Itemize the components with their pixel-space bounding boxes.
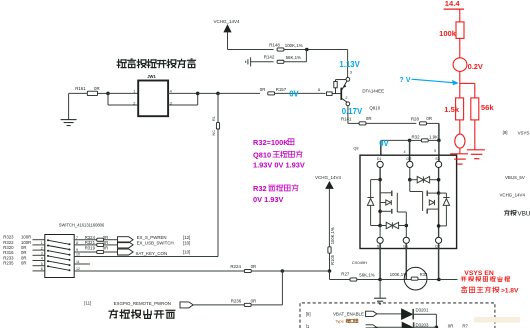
dashed box [300, 303, 495, 328]
resistor R28 [420, 122, 427, 125]
wire emitter feed [347, 50, 349, 78]
red node branch [460, 82, 475, 84]
title 静态拨杆开机方案 [117, 59, 195, 68]
node S1 ground [378, 278, 382, 282]
node R148 right [305, 48, 309, 52]
resistor R141 [348, 122, 359, 124]
body diode right [439, 192, 447, 194]
red ground left [450, 153, 468, 155]
wire S1 down [379, 243, 381, 279]
mosfet M1 left [380, 192, 391, 194]
svg-text:Q810: Q810 [253, 150, 271, 159]
svg-text:VSYS EN: VSYS EN [464, 270, 494, 277]
svg-text:D3201: D3201 [416, 308, 429, 313]
svg-text:R141: R141 [341, 116, 352, 121]
wire down to R236 [281, 271, 283, 305]
svg-text:3: 3 [41, 252, 43, 256]
svg-text:100K,1%: 100K,1% [390, 272, 407, 277]
switch left wire 2 [33, 244, 45, 246]
svg-text:R161: R161 [75, 86, 86, 91]
switch left wire 4 [33, 254, 45, 256]
resistor R157 [268, 92, 275, 95]
switch left wire 5 [33, 260, 45, 262]
pin G2 [407, 161, 413, 167]
port VBAT_ENABLE [366, 311, 377, 316]
svg-text:6: 6 [41, 267, 43, 271]
wire G1 down [405, 243, 407, 279]
svg-text:0R: 0R [94, 86, 100, 91]
resistor R161 [69, 92, 87, 94]
svg-text:NC: NC [212, 130, 216, 136]
wire D1 internal [379, 168, 381, 226]
svg-text:100k: 100k [439, 29, 457, 38]
svg-text:VCHG_14V4: VCHG_14V4 [213, 19, 240, 24]
svg-text:SWITCH_416131160806: SWITCH_416131160806 [59, 223, 105, 228]
ground rotated left [250, 57, 252, 66]
ground [379, 280, 381, 299]
red ground right [467, 149, 485, 151]
svg-text:4: 4 [404, 150, 406, 154]
svg-text:EX_S_PWREN: EX_S_PWREN [137, 235, 167, 240]
mosfet array U-Q8 box [360, 155, 457, 248]
port EX_S_PWREN [118, 237, 134, 243]
svg-text:CX049H: CX049H [352, 260, 367, 265]
wire G2 riser [409, 140, 411, 161]
wire D2 down [438, 243, 440, 279]
transistor Q810 DTA144EE [327, 77, 350, 105]
svg-text:R319: R319 [85, 245, 96, 250]
svg-text:EXGPIO_REMOTE_PWRON: EXGPIO_REMOTE_PWRON [114, 301, 171, 306]
node R224 [281, 269, 285, 273]
wire row12 to R224 [74, 270, 244, 272]
label 支持VBUS [504, 210, 516, 215]
gate M1 [396, 193, 398, 212]
svg-text:3: 3 [350, 70, 352, 74]
node R105 bottom [328, 269, 332, 273]
svg-text:[10]: [10] [183, 249, 190, 254]
svg-text:5: 5 [434, 149, 436, 153]
svg-text:DTA144EE: DTA144EE [362, 88, 384, 93]
svg-text:[9]: [9] [306, 311, 311, 316]
svg-text:1: 1 [133, 90, 135, 94]
wire S2 riser [438, 140, 440, 161]
switch left wire 1 [33, 239, 45, 241]
switch left wire 6 [33, 265, 45, 267]
svg-text:R157: R157 [276, 87, 287, 92]
svg-text:56K,1%: 56K,1% [359, 272, 374, 277]
svg-text:D3203: D3203 [416, 322, 429, 327]
wire S1 [379, 226, 381, 238]
switch JW1 [138, 81, 168, 117]
mosfet M2 right [426, 191, 428, 197]
svg-text:R1: R1 [212, 116, 216, 121]
wire [108, 92, 138, 94]
faint watermark [474, 317, 520, 323]
body diode left [371, 179, 381, 181]
switch left wire 3 [33, 249, 45, 251]
svg-text:1: 1 [41, 241, 43, 245]
svg-text:56K,1%: 56K,1% [286, 55, 301, 60]
red resistor 56k [471, 98, 479, 120]
wire row11 stub [74, 263, 90, 265]
resistor R319 [74, 251, 97, 253]
svg-text:Q810: Q810 [369, 106, 380, 111]
svg-text:0R: 0R [251, 264, 257, 269]
wire JW1 right [168, 92, 198, 94]
svg-text:R32=100K: R32=100K [253, 138, 289, 147]
ground [68, 93, 70, 119]
svg-text:Type: Type [335, 319, 344, 324]
svg-text:? V: ? V [399, 75, 410, 84]
svg-text:4: 4 [41, 257, 43, 261]
resistor R33 with circle [380, 279, 411, 281]
svg-text:[9]: [9] [503, 130, 508, 135]
svg-text:R32: R32 [253, 184, 267, 193]
svg-text:R224: R224 [230, 264, 241, 269]
wire collector down [347, 106, 349, 124]
svg-text:SAT_KEY_CON: SAT_KEY_CON [136, 251, 168, 256]
svg-text:[1: [1 [306, 324, 310, 328]
svg-text:0R: 0R [260, 87, 266, 92]
magenta note block [253, 138, 289, 147]
svg-text:Q8: Q8 [353, 146, 358, 150]
resistor R105 vertical [328, 247, 331, 253]
svg-text:R27: R27 [341, 272, 350, 277]
svg-text:VBUS_5V: VBUS_5V [505, 175, 525, 180]
red source circle 0.2V [453, 58, 467, 72]
red note line3 高电平有效 [462, 287, 499, 293]
resistor R321 [74, 244, 97, 246]
pin D2 [436, 237, 442, 243]
svg-text:0V 1.93V: 0V 1.93V [253, 195, 283, 204]
switch left wire 7 [33, 270, 45, 272]
wire D1 riser [380, 140, 382, 155]
wire to switch row10 [74, 256, 218, 258]
svg-text:VBUS: VBUS [517, 210, 530, 217]
resistor R32 [410, 139, 422, 141]
svg-text:G2: G2 [406, 157, 411, 161]
port EX_USB_SWITCH [118, 242, 134, 248]
svg-text:0R: 0R [103, 245, 109, 250]
svg-text:[10]: [10] [183, 240, 190, 245]
svg-text:VBAT_ENABLE: VBAT_ENABLE [333, 312, 364, 317]
svg-text:2: 2 [133, 101, 135, 105]
svg-text:R33: R33 [420, 272, 428, 277]
red wire + source circle 2 [459, 120, 461, 134]
node B [216, 92, 220, 96]
svg-text:EX_USB_SWITCH: EX_USB_SWITCH [137, 241, 174, 246]
svg-text:1.13V: 1.13V [339, 60, 360, 69]
pin S2 [436, 161, 442, 167]
wire S2 internal [438, 168, 440, 194]
node R32 right [437, 139, 441, 143]
resistor R324 [74, 239, 97, 241]
svg-text:R142: R142 [264, 54, 275, 59]
svg-text:S2: S2 [435, 157, 440, 161]
resistor R27 [330, 279, 351, 281]
wire G2 internal [409, 168, 411, 180]
node D2 bottom [437, 278, 441, 282]
title 远程控制开关 [109, 310, 175, 319]
svg-text:VSYS: VSYS [518, 130, 530, 135]
resistor R224 [244, 269, 251, 272]
zener pair bottom [378, 224, 382, 228]
red note line2 开机使用输出端 [461, 277, 510, 282]
wire [438, 123, 440, 140]
red resistor 100k [456, 22, 464, 39]
resistor R148 [277, 48, 284, 51]
svg-text:R28: R28 [411, 116, 420, 121]
wire rail [228, 49, 274, 51]
svg-text:2: 2 [345, 96, 347, 100]
svg-text:0R: 0R [21, 261, 27, 266]
diode D3201 [377, 313, 402, 315]
red wire 56k down [474, 120, 476, 150]
wire D2 internal [438, 193, 440, 237]
svg-text:0R: 0R [426, 116, 432, 121]
svg-text:G1: G1 [403, 245, 408, 249]
svg-text:14.4: 14.4 [445, 0, 461, 8]
svg-text:>1.8V: >1.8V [501, 288, 519, 295]
svg-text:D1: D1 [377, 157, 382, 161]
gate M2 [409, 180, 411, 192]
red resistor 1.5k [456, 98, 464, 120]
svg-text:[12]: [12] [183, 235, 190, 240]
resistor R236 [244, 303, 251, 306]
svg-text:1.93V 0V 1.93V: 1.93V 0V 1.93V [253, 161, 305, 170]
resistor R142 [251, 61, 274, 63]
svg-text:0V: 0V [289, 90, 299, 99]
svg-text:2: 2 [41, 246, 43, 250]
svg-text:1.5k: 1.5k [444, 105, 460, 114]
svg-text:R235: R235 [3, 261, 14, 266]
switch contacts [48, 240, 70, 270]
node R32 left [408, 139, 412, 143]
port EXGPIO_REMOTE_PWRON [180, 302, 193, 308]
svg-text:R7: R7 [462, 324, 468, 328]
svg-text:VCHG_14V4: VCHG_14V4 [315, 175, 342, 180]
svg-text:0.17V: 0.17V [342, 107, 363, 116]
svg-text:0.2V: 0.2V [468, 62, 483, 71]
pin D1 [377, 161, 383, 167]
svg-text:R236: R236 [231, 298, 242, 303]
svg-text:R148: R148 [269, 43, 280, 48]
svg-text:1.9K: 1.9K [429, 134, 438, 139]
svg-text:100K,1%: 100K,1% [330, 227, 335, 244]
svg-text:0R: 0R [251, 298, 257, 303]
wire [305, 50, 307, 62]
node at JW1 pin1 [106, 92, 110, 96]
svg-text:JW1: JW1 [147, 74, 156, 79]
port SAT_KEY_CON [118, 249, 134, 255]
resistor R1 NC vertical [217, 93, 219, 122]
svg-text:VCHG_14V4: VCHG_14V4 [500, 192, 526, 197]
zener pair top [410, 179, 417, 181]
svg-text:[11]: [11] [84, 301, 91, 306]
svg-text:56k: 56k [481, 103, 494, 112]
wire row10 long [74, 256, 218, 258]
wire [193, 304, 244, 306]
svg-text:0R: 0R [448, 324, 454, 328]
wire [413, 313, 436, 315]
svg-text:5: 5 [41, 262, 43, 266]
svg-text:R32: R32 [412, 134, 421, 139]
pin S1 [377, 237, 383, 243]
svg-text:R105: R105 [330, 254, 335, 265]
svg-text:100K,1%: 100K,1% [285, 43, 303, 48]
svg-text:1: 1 [318, 88, 320, 92]
svg-text:0V: 0V [379, 139, 389, 148]
pin G1 [403, 237, 409, 243]
svg-text:0R: 0R [366, 116, 372, 121]
